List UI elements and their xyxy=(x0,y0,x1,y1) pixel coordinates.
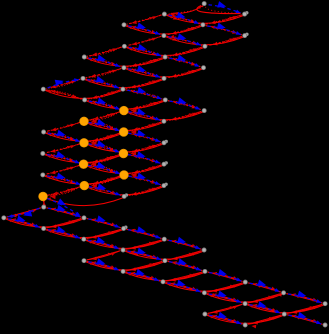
node r8c1 xyxy=(41,87,45,91)
edge red r0c5-r1c4 xyxy=(169,6,204,17)
edge red 16c1-17c2 xyxy=(46,176,80,185)
edge red 25c5-26c6 xyxy=(208,272,243,282)
arrow into orange r10c3 xyxy=(131,109,137,114)
edge red 4c3-5c2 xyxy=(87,47,122,56)
edge red 23c3-24c4 xyxy=(126,250,162,260)
node r15c4 twin xyxy=(165,161,168,164)
node r17c2 xyxy=(80,181,89,190)
edge red 16c3-17c2 xyxy=(89,176,120,184)
node r12c1 xyxy=(42,130,46,134)
node r9c2 xyxy=(83,98,87,102)
edge blue 27c7-28c8 xyxy=(288,291,321,303)
edge red same-row r5 xyxy=(86,58,163,66)
edge blue 2c5-3c6 xyxy=(207,23,241,35)
edge red 13c2-14c1 xyxy=(46,144,80,153)
node r22c2 xyxy=(82,237,86,241)
edge blue 2c3-3c4 xyxy=(128,22,160,34)
edge red 1c4-2c3 xyxy=(127,15,162,24)
arrow cluster xyxy=(173,16,178,19)
edge red 22c4-23c3 xyxy=(126,240,162,250)
node r28c6 xyxy=(243,302,247,306)
edge red 20c2-21c3 xyxy=(87,218,121,228)
edge red same-row r6 xyxy=(126,69,202,77)
node r10c5 xyxy=(202,109,206,113)
edge red 20c2-21c1 xyxy=(46,219,81,229)
edge blue 26c6-27c7 xyxy=(250,280,280,292)
edge red same-row r12 xyxy=(46,133,123,141)
edge red same-row r15 xyxy=(86,165,163,173)
arrow into orange r15c2 xyxy=(90,162,96,167)
edge red 8c3-9c2 xyxy=(87,90,120,99)
edge red 24c2-25c3 xyxy=(87,261,121,270)
edge red 23c5-24c4 xyxy=(168,251,202,261)
edge red 29c5-30c6 xyxy=(208,315,243,325)
edge red 21c3-22c2 xyxy=(87,229,121,239)
edge red 3c6-4c5 xyxy=(208,36,242,45)
arrow cluster xyxy=(210,293,215,297)
edge red 5c4-6c5 xyxy=(168,58,201,67)
arrow cluster xyxy=(50,229,55,233)
arrow cluster xyxy=(170,13,175,17)
node r29c7 xyxy=(282,312,286,316)
node r5c2 xyxy=(82,55,86,59)
edge blue 6c3-7c4 xyxy=(128,65,160,77)
node r26c6 xyxy=(243,280,247,284)
edge red 6c5-7c4 xyxy=(167,69,201,78)
edge blue 22c2-23c3 xyxy=(88,237,119,249)
node r24c4 xyxy=(163,259,167,263)
node r3c4 xyxy=(162,34,166,38)
edge red 22c4-23c5 xyxy=(167,240,201,249)
edge blue 15c2-16c3 xyxy=(88,162,120,174)
node r10c3 xyxy=(120,106,129,115)
edge red same-row r2 xyxy=(126,26,201,34)
edge red 12c3-13c2 xyxy=(88,133,119,141)
node r5c4 xyxy=(163,55,167,59)
edge red 15c2-16c3 xyxy=(88,165,120,173)
edge red same-row r7 xyxy=(85,80,163,88)
edge red 24c4-25c3 xyxy=(126,261,162,271)
edge red same-row r27 xyxy=(206,294,282,302)
edge blue 18c1-20c2 xyxy=(47,198,81,216)
node r11c2 xyxy=(80,117,89,126)
edge red 3c4-4c3 xyxy=(127,36,161,45)
edge red same-row r26 xyxy=(165,283,244,291)
edge red same-row r24 xyxy=(86,262,163,270)
edge red 4c3-5c4 xyxy=(127,47,162,56)
edge red 1c4-2c5 xyxy=(167,15,200,24)
node r2c3 xyxy=(122,23,126,27)
edge red 9c4-10c3 xyxy=(128,101,162,110)
arrow cluster xyxy=(172,261,177,265)
node r3c6 xyxy=(243,34,247,38)
edge red same-row r23 xyxy=(125,251,203,259)
edge red 27c7-28c8 xyxy=(286,293,322,303)
node r2c5 xyxy=(201,23,205,27)
edge blue 5c2-6c3 xyxy=(89,55,120,67)
edge red 16c3-17c4 xyxy=(128,176,161,185)
edge red 2c5-3c6 xyxy=(206,26,242,35)
edge red 11c4-12c3 xyxy=(128,122,161,131)
edge blue 12c3-13c4 xyxy=(128,130,160,142)
edge red 7c4-8c3 xyxy=(126,79,162,88)
node r26c4 xyxy=(161,280,165,284)
arrow cluster xyxy=(169,35,174,39)
node r1c4 xyxy=(162,12,166,16)
edge red 21c1-22c2 xyxy=(46,229,81,239)
edge red 11c2-12c1 xyxy=(46,123,79,132)
edge red 28c6-29c5 xyxy=(208,304,243,314)
node r24c2 xyxy=(82,259,86,263)
edge blue 9c2-10c3 xyxy=(89,98,120,110)
edge red 7c2-8c3 xyxy=(86,79,120,88)
edge red 15c2-16c1 xyxy=(46,165,80,174)
edge blue 27c5-28c6 xyxy=(209,291,241,303)
node r15c4 xyxy=(162,162,166,166)
edge red same-row r21 xyxy=(46,230,123,238)
edge blue 5c4-6c5 xyxy=(169,55,199,67)
edge red 11c2-12c3 xyxy=(88,122,119,130)
edge blue 23c3-24c4 xyxy=(128,248,162,260)
node r13c4 xyxy=(162,141,166,145)
edge blue 16c1-17c2 xyxy=(47,173,80,185)
edge blue 24c4-25c5 xyxy=(169,258,201,270)
edge red 28c8-29c7 xyxy=(287,304,322,314)
edge red same-row r11 xyxy=(86,122,162,130)
edge red 10c3-11c2 xyxy=(88,112,119,120)
edge red 10c3-11c4 xyxy=(128,112,161,121)
edge blue 4c3-5c4 xyxy=(129,44,161,56)
arrow into orange r12c3 xyxy=(130,130,136,135)
node r14c3 xyxy=(119,149,128,158)
edge red 26c4-27c5 xyxy=(166,282,202,292)
edge red same-row r17 xyxy=(86,187,162,195)
edge red 5c4-6c3 xyxy=(127,58,163,67)
edge red 19c1-20c2 xyxy=(47,208,82,218)
arrow into orange r14c3 xyxy=(130,152,136,157)
arrow cluster xyxy=(91,240,96,244)
edge blue 14c1-15c2 xyxy=(47,151,79,163)
edge red same-row r16 xyxy=(45,176,123,184)
edge red 2c5-3c4 xyxy=(167,26,200,35)
edge red 12c3-13c4 xyxy=(128,133,161,142)
edge red same-row r8 xyxy=(45,90,121,98)
edge red special r0c5-r1c6 loop xyxy=(197,6,241,14)
node r0c5 xyxy=(202,2,206,6)
node r13c4 twin xyxy=(165,140,168,143)
edge blue 28c6-29c7 xyxy=(249,301,280,313)
edge blue 3c4-4c5 xyxy=(168,33,201,45)
arrow into orange r13c2 xyxy=(91,141,97,146)
node r27c5 xyxy=(202,291,206,295)
node r14c1 xyxy=(41,151,45,155)
edge red 14c3-15c2 xyxy=(88,155,119,163)
edge red 28c6-29c7 xyxy=(248,304,282,313)
edge red 8c3-9c4 xyxy=(126,90,163,99)
node r8c3 xyxy=(121,87,125,91)
edge blue 16c3-17c4 xyxy=(128,173,160,185)
edge red 6c3-7c4 xyxy=(127,69,162,78)
edge red same-row r25 xyxy=(125,273,203,281)
node r1c6 twin xyxy=(245,11,248,14)
arrow cluster xyxy=(277,293,282,297)
edge red 13c4-14c3 xyxy=(128,144,161,153)
edge blue 13c2-14c3 xyxy=(88,140,119,152)
arrow into orange r11c2 xyxy=(91,119,97,124)
edge red 20c0-21c1 xyxy=(7,218,41,228)
node r16c1 xyxy=(41,173,45,177)
edge red 26c6-27c7 xyxy=(248,283,281,292)
edge red same-row r13 xyxy=(86,144,163,152)
node r18c3 twin xyxy=(125,193,128,196)
edge red 26c6-27c5 xyxy=(207,283,242,293)
edge red 17c2-18c1 xyxy=(48,187,80,195)
edge red same-row r9 xyxy=(87,101,164,109)
node r18c3 xyxy=(122,194,126,198)
edge red same-row r14 xyxy=(45,155,122,163)
edge red 2c3-3c4 xyxy=(127,26,161,35)
edge red 27c7-28c6 xyxy=(248,294,281,304)
edge red 17c2-18c3 xyxy=(89,187,122,196)
edge red 14c1-15c2 xyxy=(46,154,80,163)
node r1c6 xyxy=(243,12,247,16)
arrow cluster xyxy=(130,229,135,233)
node r30c6 xyxy=(243,323,247,327)
node r7c2 xyxy=(81,76,85,80)
edge blue 25c5-26c6 xyxy=(209,269,241,281)
node r21c3 twin xyxy=(124,226,127,229)
edge blue 9c4-10c5 xyxy=(170,97,201,109)
node r17c4 xyxy=(162,184,166,188)
node r23c3 xyxy=(121,248,125,252)
edge red same-row r4 xyxy=(126,47,203,55)
edge red 25c3-26c4 xyxy=(126,272,160,281)
node r30c8 xyxy=(323,323,327,327)
node r11c4 xyxy=(162,119,166,123)
edge blue 21c3-22c4 xyxy=(128,226,160,238)
node r16c3 xyxy=(120,171,129,180)
node r13c2 xyxy=(80,138,89,147)
arrow cluster xyxy=(172,37,177,40)
edge blue 19c1-20c2 xyxy=(48,205,80,217)
edge red 24c4-25c5 xyxy=(168,261,202,270)
edge red 9c4-10c5 xyxy=(168,101,201,110)
node r21c3 xyxy=(122,226,126,230)
node r25c5 xyxy=(203,269,207,273)
edge red same-row r10 xyxy=(126,112,203,120)
edge red same-row r28 xyxy=(247,305,324,313)
edge red 7c2-8c1 xyxy=(46,79,80,88)
edge red 23c3-24c2 xyxy=(87,251,121,261)
edge blue 8c3-9c4 xyxy=(127,87,161,99)
node r20c0 xyxy=(2,216,6,220)
edge red 8c1-9c2 xyxy=(46,90,82,99)
arrow cluster xyxy=(133,252,138,256)
edge red same-row r20 xyxy=(6,219,83,227)
edge blue 12c1-13c2 xyxy=(48,130,80,142)
edge blue 19c1-20c0 xyxy=(8,208,40,218)
node r28c8 xyxy=(323,302,327,306)
node r15c2 xyxy=(79,160,88,169)
edge red 5c2-6c3 xyxy=(87,58,121,67)
node r19c1 xyxy=(42,205,46,209)
edge red 4c5-5c4 xyxy=(168,47,202,56)
edge blue 29c7-30c8 xyxy=(289,312,322,324)
node r3c6 twin xyxy=(245,33,248,36)
edge blue 17c2-18c3 xyxy=(89,183,121,195)
arrow into orange r16c3 xyxy=(131,173,137,178)
arrow cluster xyxy=(252,304,257,308)
node r29c5 xyxy=(203,312,207,316)
node r4c5 xyxy=(203,44,207,48)
node r4c3 xyxy=(122,44,126,48)
edge red same-row r22 xyxy=(86,240,163,248)
arrow into orange r17c2 xyxy=(91,184,97,189)
edge blue 25c3-26c4 xyxy=(128,269,160,281)
edge red same-row r29 xyxy=(207,315,283,323)
node r7c4 xyxy=(162,76,166,80)
node r22c4 xyxy=(162,237,166,241)
edge red 15c4-16c3 xyxy=(128,165,161,174)
node r25c3 xyxy=(121,269,125,273)
edge red same-row r1 xyxy=(166,15,243,23)
edge blue 22c4-23c5 xyxy=(169,237,201,249)
edge blue 29c5-30c6 xyxy=(209,312,241,324)
edge red 21c3-22c4 xyxy=(126,229,161,239)
edge blue 20c2-21c3 xyxy=(88,215,119,227)
node r18c1 xyxy=(39,192,48,201)
edge blue 7c2-8c3 xyxy=(87,76,119,88)
edge red 13c2-14c3 xyxy=(88,144,119,152)
edge red 14c3-15c4 xyxy=(128,155,161,164)
edge blue 0c5-1c6 xyxy=(209,1,241,13)
edge blue 21c1-22c2 xyxy=(48,226,80,238)
edge blue 8c1-7c2 xyxy=(48,78,80,88)
edge red 29c7-30c8 xyxy=(287,315,322,325)
edge red 10c5-11c4 xyxy=(167,111,202,120)
edge red 25c5-26c4 xyxy=(166,272,202,282)
edge red 3c4-4c5 xyxy=(167,36,202,45)
node r6c5 xyxy=(201,66,205,70)
edge blue 1c4-2c5 xyxy=(169,12,199,24)
edge blue 26c4-27c5 xyxy=(167,280,200,292)
edge blue 10c3-11c4 xyxy=(128,108,160,120)
edge red 19c1-20c0 xyxy=(7,208,41,218)
node r12c3 xyxy=(119,128,128,137)
edge red 12c1-13c2 xyxy=(46,133,79,142)
node r23c5 xyxy=(202,248,206,252)
edge red 17c4-18c3 xyxy=(127,186,161,195)
node r6c3 xyxy=(122,66,126,70)
edge red 18c1-19c1 xyxy=(42,198,46,207)
arrow cluster xyxy=(130,251,135,255)
edge blue 20c0-21c1 xyxy=(8,215,40,227)
node r9c4 xyxy=(163,98,167,102)
node r21c1 xyxy=(42,226,46,230)
edge red 29c7-30c6 xyxy=(248,315,282,325)
edge red 9c2-10c3 xyxy=(87,101,119,110)
edge red same-row r3 xyxy=(166,37,243,45)
edge blue 24c2-25c3 xyxy=(88,258,119,270)
node r20c2 xyxy=(82,216,86,220)
node r27c7 xyxy=(282,291,286,295)
edge red 1c6-2c5 xyxy=(206,15,242,24)
edge red 27c5-28c6 xyxy=(207,293,242,303)
edge blue 11c2-12c3 xyxy=(88,119,120,131)
node r17c4 twin xyxy=(164,183,167,186)
edge red 6c3-7c2 xyxy=(86,69,121,78)
edge blue 14c3-15c4 xyxy=(128,151,160,163)
edge red same-row r18 xyxy=(45,198,123,206)
arrow cluster xyxy=(252,325,257,329)
edge red 22c2-23c3 xyxy=(87,240,121,249)
arrow into orange r18c1 xyxy=(50,194,56,199)
